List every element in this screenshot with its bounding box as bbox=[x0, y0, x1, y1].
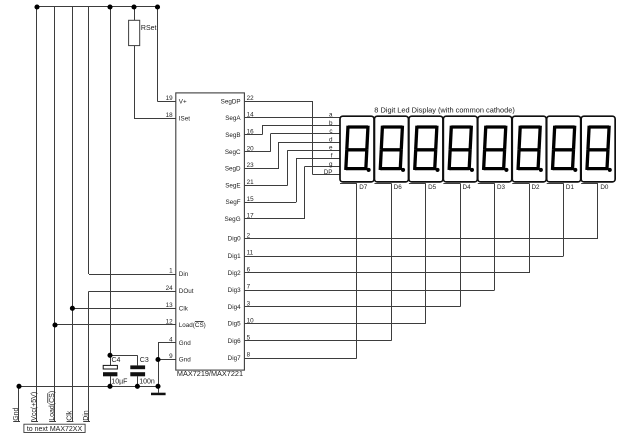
svg-text:D5: D5 bbox=[428, 184, 437, 191]
svg-text:10µF: 10µF bbox=[111, 378, 127, 385]
svg-text:SegE: SegE bbox=[225, 183, 240, 190]
svg-text:12: 12 bbox=[166, 319, 174, 326]
svg-text:23: 23 bbox=[247, 162, 255, 169]
svg-text:8 Digit Led Display (with comm: 8 Digit Led Display (with common cathode… bbox=[374, 106, 514, 115]
svg-text:7: 7 bbox=[247, 284, 251, 291]
svg-text:D0: D0 bbox=[600, 184, 609, 191]
svg-text:DOut: DOut bbox=[179, 288, 194, 295]
svg-text:10: 10 bbox=[247, 317, 255, 324]
svg-text:C4: C4 bbox=[112, 357, 121, 364]
svg-text:V+: V+ bbox=[179, 99, 187, 106]
svg-text:MAX7219/MAX7221: MAX7219/MAX7221 bbox=[177, 369, 243, 378]
svg-text:3: 3 bbox=[247, 300, 251, 307]
svg-text:c: c bbox=[329, 128, 332, 135]
svg-text:Din: Din bbox=[179, 271, 189, 278]
svg-text:RSet: RSet bbox=[141, 25, 157, 32]
svg-text:D6: D6 bbox=[394, 184, 403, 191]
svg-text:Dig4: Dig4 bbox=[228, 304, 241, 311]
svg-text:17: 17 bbox=[247, 213, 255, 220]
svg-text:D1: D1 bbox=[566, 184, 575, 191]
svg-text:D2: D2 bbox=[531, 184, 540, 191]
svg-text:to next MAX72XX: to next MAX72XX bbox=[27, 426, 83, 433]
svg-text:Dig3: Dig3 bbox=[228, 287, 241, 294]
svg-text:19: 19 bbox=[166, 95, 174, 102]
svg-text:Dig1: Dig1 bbox=[228, 253, 241, 260]
svg-text:d: d bbox=[329, 136, 333, 143]
svg-text:SegF: SegF bbox=[226, 199, 241, 206]
svg-text:4: 4 bbox=[169, 337, 173, 344]
svg-text:e: e bbox=[329, 145, 333, 152]
svg-text:20: 20 bbox=[247, 145, 255, 152]
svg-text:24: 24 bbox=[166, 285, 174, 292]
svg-text:Dig6: Dig6 bbox=[228, 338, 241, 345]
svg-text:Dig5: Dig5 bbox=[228, 321, 241, 328]
svg-text:SegB: SegB bbox=[225, 132, 240, 139]
svg-text:Vcc(+5V): Vcc(+5V) bbox=[31, 392, 38, 421]
svg-text:C3: C3 bbox=[140, 357, 149, 364]
svg-text:SegG: SegG bbox=[224, 216, 240, 223]
svg-text:b: b bbox=[329, 120, 333, 127]
svg-text:g: g bbox=[329, 161, 333, 168]
svg-text:Load(CS): Load(CS) bbox=[49, 391, 56, 421]
svg-text:D4: D4 bbox=[463, 184, 472, 191]
svg-text:16: 16 bbox=[247, 128, 255, 135]
svg-text:18: 18 bbox=[166, 112, 174, 119]
svg-text:2: 2 bbox=[247, 232, 251, 239]
svg-text:21: 21 bbox=[247, 179, 255, 186]
svg-text:f: f bbox=[331, 153, 333, 160]
svg-text:Gnd: Gnd bbox=[179, 340, 191, 347]
svg-text:22: 22 bbox=[247, 95, 255, 102]
svg-text:Din: Din bbox=[83, 410, 90, 421]
svg-text:Clk: Clk bbox=[179, 305, 189, 312]
svg-text:8: 8 bbox=[247, 352, 251, 359]
svg-text:1: 1 bbox=[169, 268, 173, 275]
svg-text:13: 13 bbox=[166, 302, 174, 309]
svg-text:Dig7: Dig7 bbox=[228, 355, 241, 362]
svg-text:SegA: SegA bbox=[225, 115, 241, 122]
svg-text:9: 9 bbox=[169, 353, 173, 360]
svg-text:Gnd: Gnd bbox=[179, 357, 191, 364]
svg-text:SegDP: SegDP bbox=[221, 99, 241, 106]
svg-text:6: 6 bbox=[247, 267, 251, 274]
svg-text:14: 14 bbox=[247, 112, 255, 119]
svg-text:a: a bbox=[329, 112, 333, 119]
svg-text:Dig2: Dig2 bbox=[228, 270, 241, 277]
svg-text:100n: 100n bbox=[139, 378, 155, 385]
svg-text:11: 11 bbox=[247, 250, 254, 257]
svg-text:D3: D3 bbox=[497, 184, 506, 191]
svg-text:D7: D7 bbox=[359, 184, 368, 191]
svg-text:Load(CS): Load(CS) bbox=[179, 322, 206, 329]
svg-text:SegC: SegC bbox=[225, 149, 241, 156]
svg-text:ISet: ISet bbox=[179, 116, 190, 123]
svg-text:15: 15 bbox=[247, 196, 255, 203]
svg-text:SegD: SegD bbox=[225, 166, 241, 173]
svg-text:5: 5 bbox=[247, 334, 251, 341]
svg-text:Clk: Clk bbox=[66, 410, 73, 421]
svg-text:Gnd: Gnd bbox=[13, 407, 20, 420]
svg-text:Dig0: Dig0 bbox=[228, 236, 241, 243]
svg-text:DP: DP bbox=[324, 169, 333, 176]
